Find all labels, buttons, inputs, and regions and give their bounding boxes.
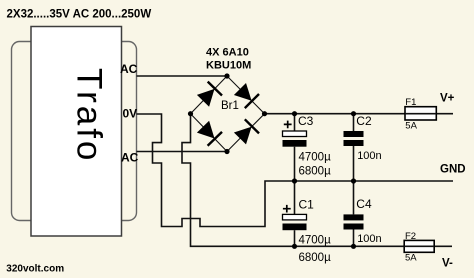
node: GND rail at C3/C1 (292, 178, 297, 183)
svg-text:C4: C4 (356, 197, 372, 211)
capacitor C1 stub top (294, 181, 296, 214)
capacitor C2 stub top (353, 114, 355, 131)
svg-text:Trafo: Trafo (69, 68, 108, 163)
fuse F1 body (405, 107, 436, 120)
capacitor C3 stub bottom (294, 147, 296, 181)
capacitor C2 stub bottom (353, 146, 355, 181)
wire: 0V terminal down and right to GND rail (with hop over V- wire) (137, 114, 454, 227)
svg-text:GND: GND (440, 163, 466, 175)
fuse F2 wire through (404, 245, 434, 247)
wire: bridge left node down to V- rail (182, 114, 452, 247)
capacitor C3 stub top (294, 114, 296, 131)
svg-text:F1: F1 (405, 97, 416, 108)
svg-text:AC: AC (121, 151, 139, 165)
capacitor C1 plus sign (283, 205, 291, 213)
node: bridge right (V+) (262, 111, 267, 116)
capacitor C1 stub bottom (294, 230, 296, 246)
capacitor C3 negative plate (283, 140, 307, 147)
svg-text:C2: C2 (356, 114, 372, 128)
wire: bottom AC terminal to bridge bottom node (hops over two verticals) (137, 151, 228, 153)
svg-text:6800µ: 6800µ (299, 165, 332, 177)
svg-text:320volt.com: 320volt.com (6, 264, 64, 275)
svg-text:100n: 100n (357, 233, 381, 245)
capacitor C4 stub bottom (353, 230, 355, 247)
node: V+ rail at C3 (292, 111, 297, 116)
capacitor C4 stub top (353, 181, 355, 214)
fuse F1 wire through (405, 113, 436, 115)
bridge diode D4 (bottom to right) (234, 127, 252, 145)
node: bridge bottom (AC in) (224, 149, 229, 154)
capacitor C4 plate 1 (344, 214, 364, 220)
bridge rectifier Br1 diamond edges (191, 76, 265, 152)
svg-text:100n: 100n (357, 150, 381, 162)
svg-text:5A: 5A (405, 121, 417, 132)
svg-text:V+: V+ (440, 93, 455, 105)
capacitor C2 plate 1 (344, 131, 364, 137)
svg-text:AC: AC (120, 62, 138, 76)
node: V- rail at C1 (292, 244, 297, 249)
svg-text:C1: C1 (299, 198, 315, 212)
svg-text:0V: 0V (123, 107, 138, 121)
svg-text:F2: F2 (405, 231, 416, 242)
svg-text:4700µ: 4700µ (299, 235, 332, 247)
node: V+ rail at C2 (351, 111, 356, 116)
capacitor C3 plus sign (284, 121, 292, 129)
svg-text:2X32.....35V AC 200...250W: 2X32.....35V AC 200...250W (7, 8, 152, 20)
svg-text:C3: C3 (298, 114, 314, 128)
svg-text:4X 6A10: 4X 6A10 (206, 47, 249, 59)
capacitor C3 positive plate (283, 131, 307, 137)
svg-text:Br1: Br1 (221, 100, 239, 112)
node: GND rail at C2/C4 (351, 178, 356, 183)
node: bridge left (V-) (188, 111, 193, 116)
transformer winding box (31, 27, 122, 237)
wire: top AC terminal to bridge top node (137, 75, 228, 77)
capacitor C1 negative plate (283, 224, 307, 231)
capacitor C1 positive plate (283, 214, 307, 220)
svg-text:4700µ: 4700µ (299, 152, 332, 164)
fuse F2 body (404, 240, 434, 252)
node: bridge top (AC in) (224, 73, 229, 78)
svg-text:6800µ: 6800µ (299, 252, 332, 264)
svg-text:KBU10M: KBU10M (206, 60, 251, 72)
capacitor C4 plate 2 (344, 224, 364, 230)
bridge diode D1 (left to top) (197, 89, 215, 107)
transformer TR core (rounded rect) (12, 42, 137, 221)
bridge diode D2 (top to right) (234, 83, 252, 101)
wire: V+ rail from bridge right node to fuse and output (265, 113, 454, 115)
node: V- rail at C4 (351, 244, 356, 249)
svg-text:5A: 5A (405, 253, 417, 264)
capacitor C2 plate 2 (344, 140, 364, 146)
svg-text:V-: V- (442, 257, 453, 269)
bridge diode D3 (left to bottom) (197, 121, 215, 139)
